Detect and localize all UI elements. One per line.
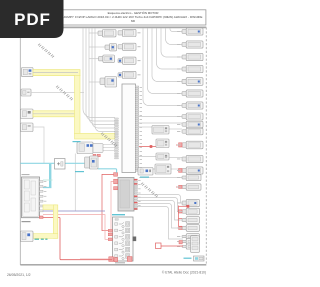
title box: [61, 10, 206, 25]
connector SB: [55, 159, 66, 170]
wire red br h2: [179, 218, 183, 220]
wire red br h3: [179, 225, 183, 227]
cluster red mark: [179, 241, 182, 244]
junction box red pin: [39, 216, 43, 218]
fuse box B right pin labels: [140, 87, 142, 168]
diagonal label D2: [56, 86, 73, 101]
svg-text:PDF: PDF: [14, 10, 51, 29]
label N4: [138, 74, 141, 75]
wire yellow bottom h1: [43, 205, 56, 210]
wire red stub r145: [176, 144, 182, 146]
label green LB: [35, 239, 48, 240]
wire LC2: [31, 92, 84, 94]
wire pink to ECU: [43, 215, 108, 240]
connector LB: [21, 231, 34, 242]
relay unit inner: [120, 180, 130, 208]
left frame border: [19, 27, 21, 264]
wire cyan elbow: [98, 169, 117, 173]
connector RC2: [177, 41, 203, 48]
wire cyan thick vertical: [49, 164, 51, 188]
junction box inner border: [23, 178, 38, 216]
connector M4: [100, 77, 117, 88]
connector RC12: [177, 155, 203, 162]
connector RC1: [177, 28, 203, 35]
connector RC4: [177, 65, 203, 72]
connector cluster tall box: [191, 236, 200, 253]
diagonal label D5: [141, 183, 158, 198]
relay unit left pink pins: [114, 173, 118, 190]
relay R4: [155, 164, 171, 174]
title text: [64, 10, 203, 23]
wire red br h4: [161, 245, 183, 247]
connector LC4: [21, 123, 34, 132]
connector M1: [98, 30, 116, 37]
wire stub M4: [89, 81, 100, 83]
wire yellow LC3: [33, 111, 76, 117]
diagonal label D1: [38, 44, 54, 58]
connector RB: [138, 168, 153, 176]
relay R2: [156, 139, 169, 148]
wire cyan into junction: [43, 187, 51, 189]
label cyan BR: [184, 258, 192, 259]
wire red br vertical: [178, 206, 180, 227]
connector RC13: [177, 167, 203, 174]
wire row 156.5: [139, 156, 156, 158]
right dashed frame border: [205, 27, 207, 264]
label cyan M6: [75, 171, 84, 172]
label N3: [138, 60, 141, 61]
wire blue from junction: [43, 210, 105, 212]
connector RC187: [177, 184, 201, 190]
connector RC7: [177, 102, 203, 109]
wire yellow bottom vertical: [53, 205, 57, 238]
relay unit right pins: [134, 179, 137, 210]
connector LC2: [21, 89, 31, 96]
wire red row 187: [176, 186, 182, 188]
connector RC6: [177, 90, 203, 97]
fuse box B body: [122, 84, 136, 173]
connector RC11: [177, 141, 203, 149]
wire yellow lower horizontal: [75, 133, 116, 139]
bottom frame border: [20, 264, 206, 266]
svg-text:© ETAI, Atelio Doc (2021-810): © ETAI, Atelio Doc (2021-810): [162, 271, 206, 275]
connector RC9: [177, 121, 203, 128]
connector RC18: [177, 225, 200, 232]
wire red bottom loop: [43, 217, 112, 259]
wire row 116.5: [139, 116, 182, 118]
ECU pin rows: [115, 222, 130, 260]
wire row 177.5: [139, 177, 182, 179]
wire red row 146.5: [139, 146, 156, 148]
ECU top mark: [115, 219, 118, 221]
wire R3 right: [169, 157, 182, 159]
wire R4 right: [171, 168, 182, 170]
wire bundle V2 nested: [143, 28, 182, 105]
wire pink bottom: [80, 258, 112, 260]
wire stub M1: [89, 32, 98, 34]
connector N2: [118, 43, 136, 50]
label ECU bottom: [115, 262, 125, 263]
connector N1: [118, 29, 136, 36]
relay R3: [156, 153, 169, 160]
connector M6: [85, 156, 99, 169]
wire row 127: [139, 126, 152, 128]
PDF badge: [0, 0, 64, 38]
connector BR: [194, 256, 205, 261]
wire yellow bottom h2: [33, 234, 58, 239]
wire pale cyan from junction: [43, 179, 53, 181]
relay R1: [152, 126, 169, 135]
connector N4: [118, 71, 136, 78]
connector RC19: [177, 234, 200, 240]
connector RC3: [177, 53, 203, 60]
wire stubs M5 to box B: [103, 145, 115, 151]
wire vertical from M5: [74, 154, 76, 212]
connector M2: [105, 44, 117, 51]
label cyan M5: [73, 141, 81, 142]
M5 red marks: [93, 154, 100, 157]
wire bundle V1: [83, 28, 115, 131]
connector LC3: [21, 109, 34, 119]
connector N3: [118, 57, 136, 64]
connector RC15: [177, 199, 200, 206]
connector M5: [77, 142, 103, 154]
connector RC17: [177, 217, 200, 224]
label JB top: [22, 174, 30, 175]
wire pink vertical x111: [108, 181, 113, 234]
connector RC21: [177, 244, 195, 249]
fuse box B right pins: [135, 86, 138, 171]
junction box inner cells: [24, 180, 35, 212]
wire stub M3: [89, 58, 99, 60]
ECU left red pins: [108, 229, 112, 240]
wire top bus: [20, 26, 206, 28]
red component RX: [156, 243, 162, 249]
junction box right pins: [39, 181, 43, 212]
label cyan relay unit: [112, 214, 125, 215]
relay unit red pins: [134, 179, 137, 210]
fuse box B left pins: [115, 118, 118, 159]
svg-text:M6: M6: [131, 19, 135, 23]
wire stub M2: [89, 46, 105, 48]
label JB bottom: [22, 221, 31, 222]
connector M3: [99, 55, 115, 62]
connector LC1: [22, 68, 34, 77]
label cyan RB: [140, 177, 149, 178]
svg-text:26/05/2021, 1/2: 26/05/2021, 1/2: [7, 273, 31, 277]
ECU body: [113, 217, 134, 261]
wire row 124.5: [139, 122, 182, 124]
junction box pin labels: [44, 181, 47, 206]
ECU bottom red boxes: [109, 257, 132, 262]
connector RC10: [177, 128, 203, 135]
ECU right dark box: [133, 237, 137, 242]
label N1: [138, 32, 141, 33]
connector RC5: [177, 78, 203, 86]
connector RC14: [177, 174, 201, 180]
wire row 169: [139, 168, 155, 170]
diagonal label D4: [101, 133, 117, 147]
wire cyan main: [20, 162, 84, 164]
wire red vertical x102: [102, 174, 114, 230]
relay unit right pin labels: [138, 180, 140, 206]
wire bundle bottom-right: [138, 195, 184, 240]
wire yellow LC1: [33, 70, 80, 76]
connector RC16: [177, 208, 200, 215]
wire R1 right: [169, 128, 182, 130]
relay unit body: [118, 178, 134, 212]
wire LC4 elbow: [33, 127, 44, 163]
label N2: [138, 46, 141, 47]
wire yellow vertical: [75, 75, 81, 133]
wire red br h1: [179, 205, 189, 207]
connector RC8: [177, 113, 203, 120]
connector RC20: [177, 239, 200, 245]
junction box body: [22, 177, 40, 218]
